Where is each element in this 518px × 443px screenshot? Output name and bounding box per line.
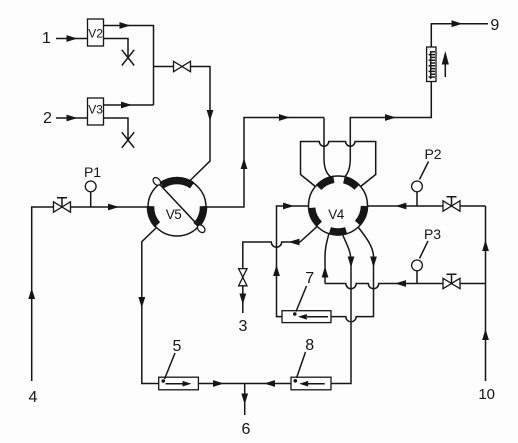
V4 black arc top-right (45-75deg)	[344, 180, 357, 187]
arrow up on riser (upper)	[482, 240, 489, 251]
arrow down on box8 drop	[348, 257, 355, 268]
arrow up on V5 right riser	[241, 158, 248, 169]
flow meter scale ticks	[430, 51, 432, 79]
svg-text:P1: P1	[84, 164, 101, 180]
V5 handle nub upper-left	[152, 176, 163, 187]
wire: V2 top outlet to junction vertical	[104, 26, 154, 106]
svg-text:6: 6	[242, 421, 251, 438]
wire: meter top to port 9	[431, 24, 488, 47]
svg-text:V2: V2	[88, 26, 103, 40]
arrow left on P3 line	[395, 280, 406, 287]
V4 black arc bottom (255-285deg)	[330, 231, 346, 232]
valve V2 box	[88, 19, 104, 46]
arrow left into V4 right port	[395, 203, 406, 210]
svg-text:8: 8	[305, 337, 314, 354]
restrictor box 5	[159, 377, 199, 390]
hand valve on P3 line	[443, 278, 460, 288]
leader P3	[420, 241, 429, 259]
closed port X at V3 vent	[122, 132, 134, 148]
arrow left toward check valve	[289, 239, 300, 246]
arrow down on box7 feed	[370, 257, 377, 268]
wire: V3 outlet to junction	[104, 104, 154, 106]
arrow to port 9	[452, 20, 463, 27]
svg-text:3: 3	[239, 318, 248, 335]
hand valve with T handle on port4 line	[54, 202, 71, 212]
svg-text:V5: V5	[166, 207, 182, 222]
pressure gauge P3	[416, 271, 418, 284]
shutoff valve (bowtie)	[174, 61, 191, 71]
arrow on port2 wire	[67, 115, 78, 122]
wire: P3 line to right riser (hops over two verticals)	[325, 284, 486, 289]
arrow up on port4 wire	[28, 288, 35, 299]
wire: V2 vent line	[104, 39, 129, 58]
arrow down to port 3	[239, 294, 246, 305]
V5 rotor black arc left	[151, 206, 158, 225]
wire: port 6 drop	[244, 384, 246, 416]
arrow left after box8	[264, 380, 275, 387]
wire: V3 vent line	[104, 118, 129, 140]
svg-text:1: 1	[42, 30, 51, 47]
wire: V4 bottom-middle port down to box8	[331, 235, 351, 384]
svg-text:V3: V3	[88, 103, 103, 117]
V4 black arc top-left (100-135deg)	[319, 179, 334, 187]
flow meter body	[427, 47, 436, 82]
svg-text:9: 9	[490, 17, 499, 34]
pipe through right funnel, wire to flow meter	[345, 82, 432, 178]
arrow up on riser (lower)	[482, 329, 489, 340]
wire: V5 right port up and over to left funnel	[206, 118, 324, 208]
arrow on V2 outlet	[120, 22, 131, 29]
svg-text:4: 4	[29, 389, 38, 406]
pipe through left funnel into V4	[324, 118, 331, 178]
pressure gauge P2	[416, 192, 418, 206]
wire: port1 into V2	[56, 38, 88, 40]
svg-text:10: 10	[478, 386, 495, 403]
V5 rotor black arc right	[196, 206, 203, 225]
check valve on port3 line	[239, 269, 247, 286]
arrow right toward funnel	[279, 114, 290, 121]
svg-text:V4: V4	[328, 207, 345, 222]
arrow on V3 outlet	[121, 102, 132, 109]
arrow into V5 left port	[108, 204, 119, 211]
svg-text:P3: P3	[424, 226, 441, 242]
wire: junction to shutoff valve to V5 top port	[154, 67, 211, 181]
arrow up on box7 riser	[273, 265, 280, 276]
svg-text:2: 2	[43, 110, 52, 127]
restrictor box 8	[291, 377, 331, 390]
wire: bottom collector line	[198, 383, 291, 385]
arrow on port1 wire	[67, 35, 78, 42]
wire: V4 bottom-left entry from P3 line	[325, 234, 329, 284]
wire: V4 left port from box7 riser	[277, 206, 309, 317]
hand valve on P2 line	[443, 201, 460, 211]
V5 handle nub lower-right	[196, 223, 207, 234]
wire: V4 lower-left port to check valve and port 3	[243, 226, 317, 313]
funnel chambers above V4	[301, 142, 376, 187]
V4 black arc left (185-225deg)	[312, 208, 320, 224]
wire: port2 into V3	[56, 117, 88, 119]
svg-text:7: 7	[305, 270, 314, 287]
valve V3 box	[88, 98, 104, 125]
svg-text:P2: P2	[424, 146, 441, 162]
closed port X at V2 vent	[122, 50, 134, 66]
wire: box7 outlet to V4 bottom-right port (hop over box8 drop)	[331, 227, 374, 322]
arrow right toward flow meter	[385, 114, 396, 121]
arrow right after box5	[213, 380, 224, 387]
pressure gauge P1	[90, 192, 92, 207]
wire: V4 right port to P2 and valve	[368, 205, 486, 207]
rotary valve V4 body	[309, 176, 368, 235]
leader P2	[420, 162, 429, 180]
V4 black arc right (318-359deg)	[358, 206, 365, 223]
arrow down on vertical to V5	[207, 110, 214, 121]
arrow into V4 left port	[283, 203, 294, 210]
V5 rotor black arc top	[162, 180, 192, 185]
wire: V5 bottom-left port down to box5	[142, 228, 159, 384]
wire: port4 up and right into V5	[32, 207, 148, 381]
arrow down to port 6	[241, 394, 248, 405]
wire: right vertical port10 riser	[485, 206, 487, 381]
flow direction arrow beside meter	[444, 60, 446, 77]
arrow up into V4 bottom-left	[322, 267, 329, 278]
rotary valve V5 body	[148, 178, 206, 236]
V5 rotor diagonal	[157, 181, 201, 228]
svg-text:5: 5	[173, 338, 182, 355]
arrow down on left drop	[138, 297, 145, 308]
restrictor box 7	[282, 311, 331, 323]
